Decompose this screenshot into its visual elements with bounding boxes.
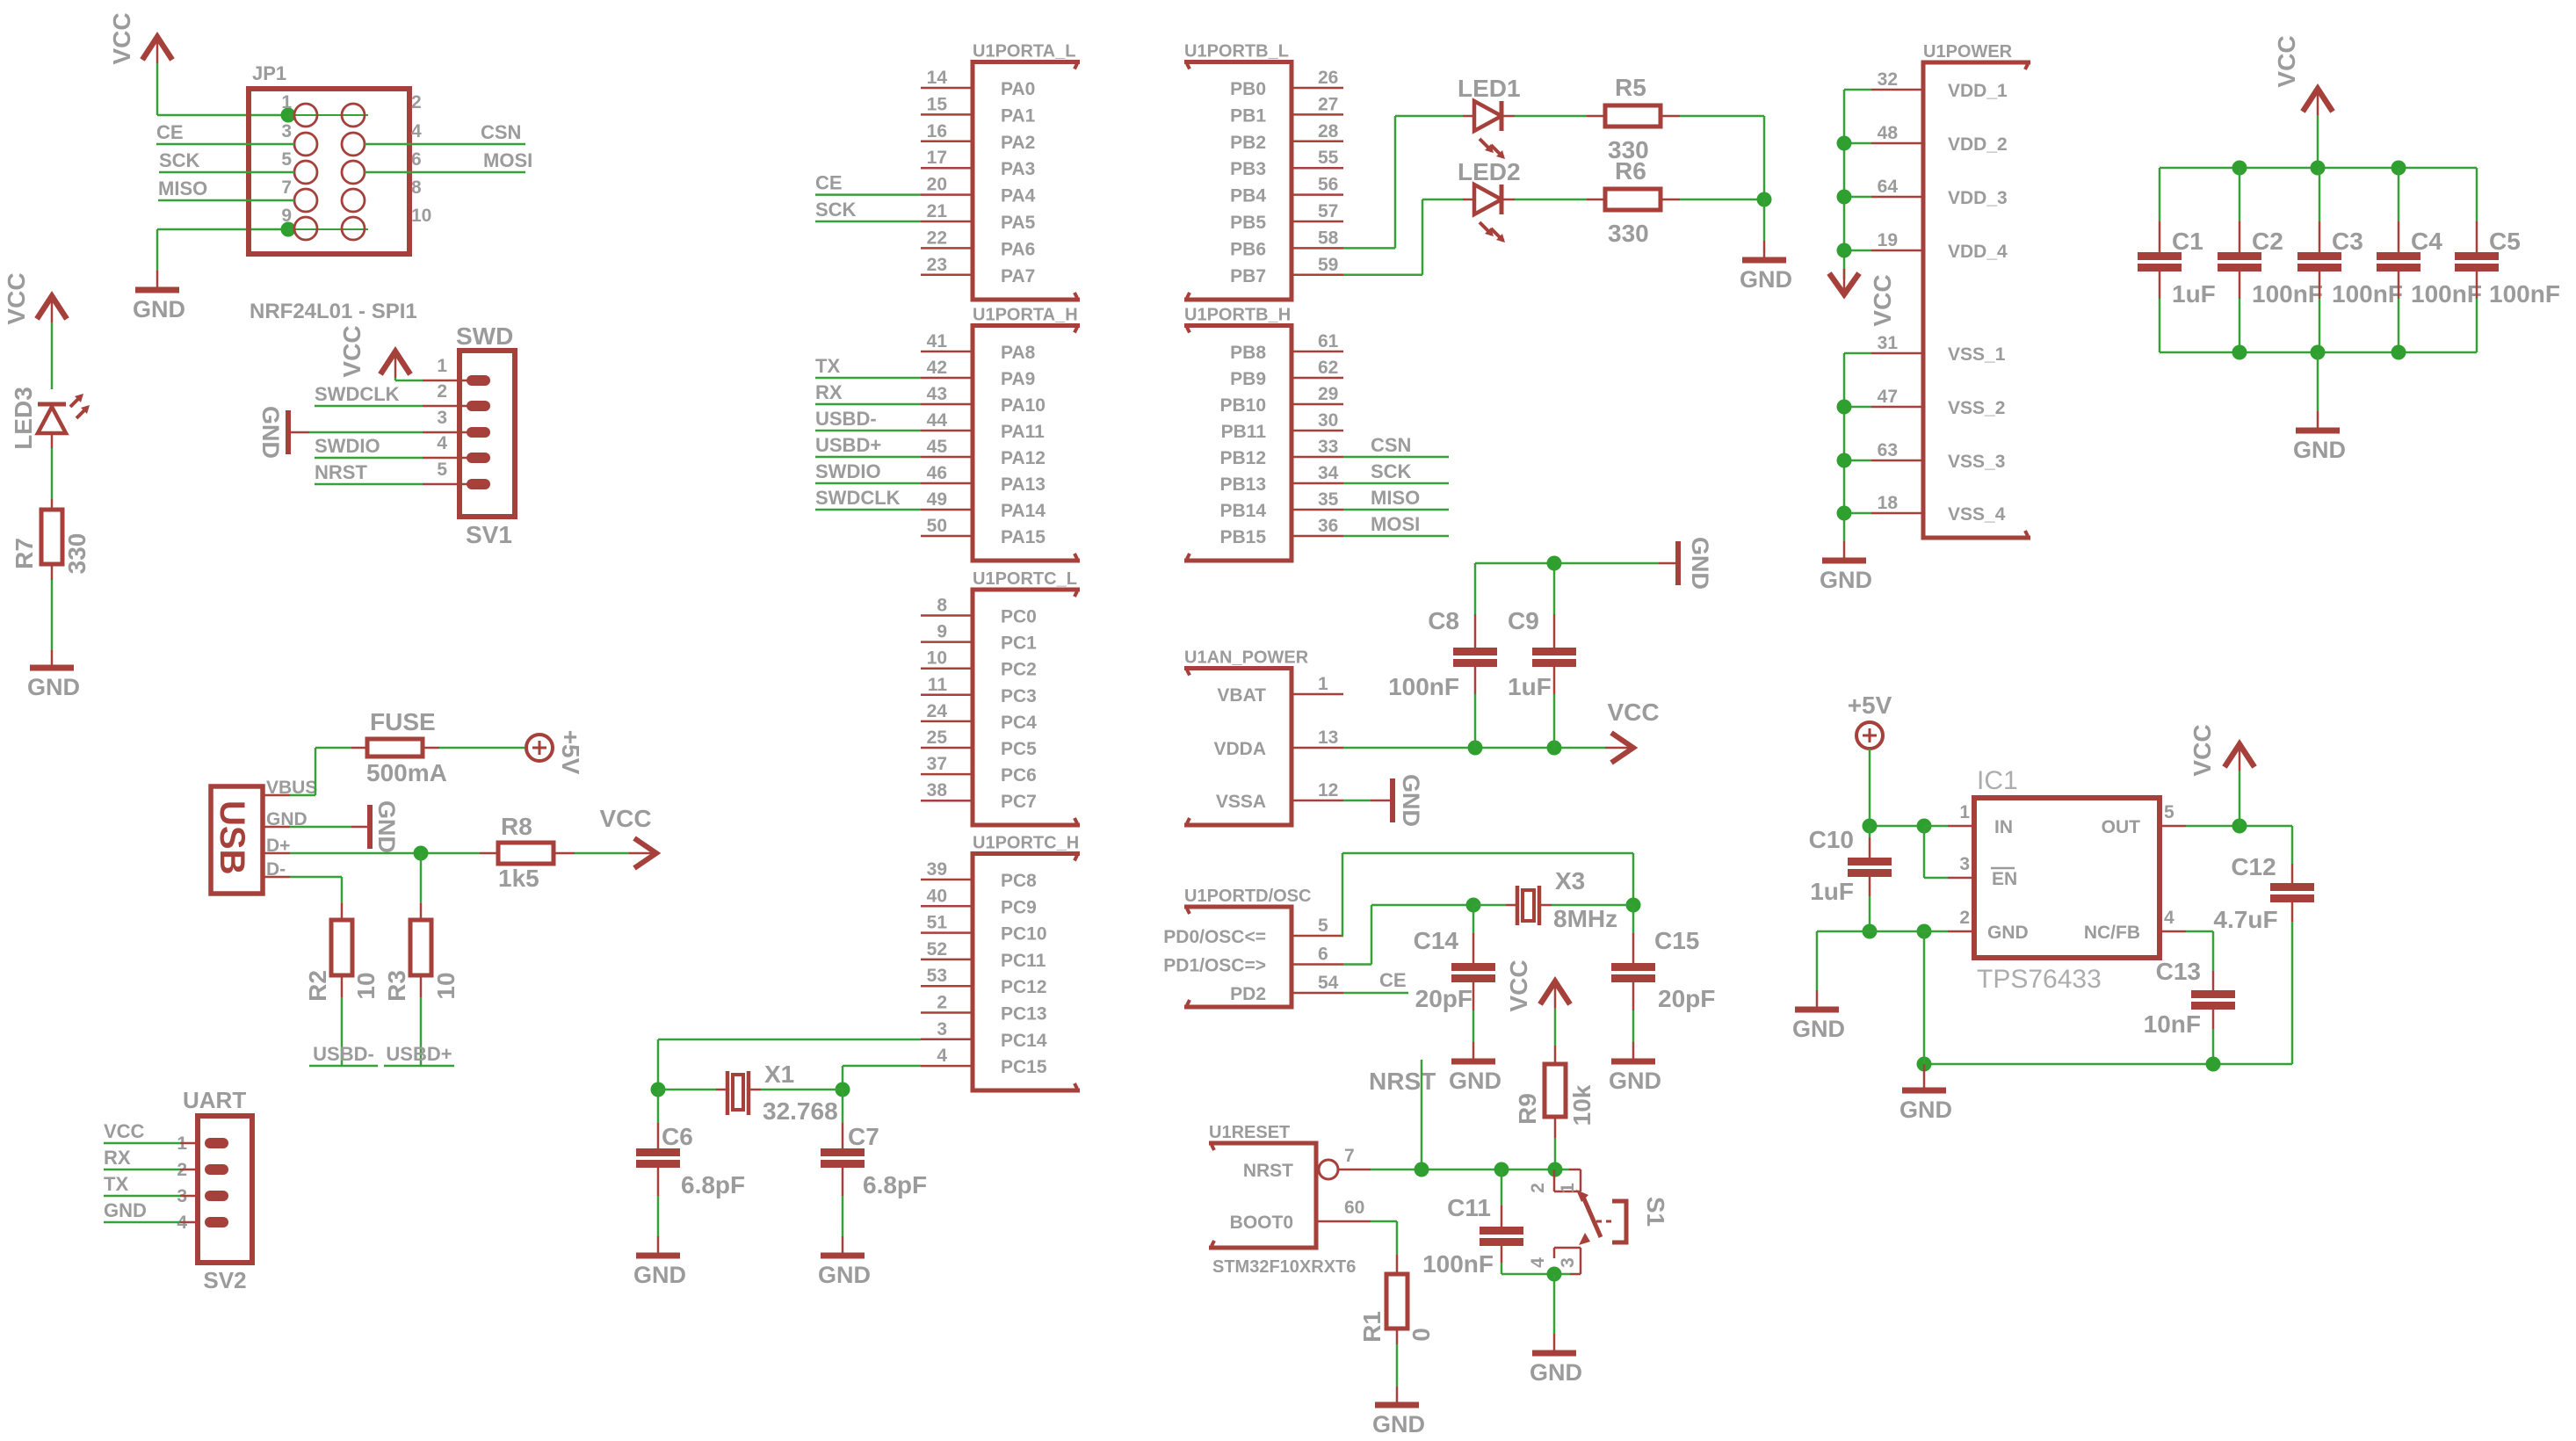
svg-text:U1PORTA_H: U1PORTA_H [973,306,1078,325]
wire+label CSN (JP1 pin4) [365,143,525,146]
svg-text:5: 5 [2164,802,2174,822]
svg-text:U1PORTB_L: U1PORTB_L [1184,42,1289,62]
svg-text:PA1: PA1 [1001,105,1036,126]
wire+label TX (U1PORTA_H) [815,377,921,380]
wire R9 to NRST row [1554,1117,1557,1138]
svg-text:4: 4 [411,121,422,141]
svg-text:3: 3 [1959,854,1970,874]
svg-text:52: 52 [927,939,947,959]
ground symbol (C6) [636,1253,680,1259]
svg-text:100nF: 100nF [2332,280,2403,308]
wire PB7 to LED2 [1343,274,1422,277]
wire X3 left stub [1473,904,1506,907]
wire C10 to GND symbol [1817,930,1870,933]
capacitor C11 [1501,1169,1503,1206]
svg-text:56: 56 [1318,175,1338,195]
svg-text:X1: X1 [764,1061,794,1088]
svg-text:45: 45 [927,437,948,457]
svg-text:15: 15 [927,94,948,114]
wire+label SCK (JP1 pin5) [159,171,294,174]
junction node C9 bottom [1547,741,1562,756]
IC U1POWER [1923,62,2030,538]
wire pins 9-10 [288,228,368,230]
svg-text:VDDA: VDDA [1213,739,1266,759]
wire GND pin to rail [1923,931,1926,1064]
IC U1RESET [1209,1143,1316,1248]
junction top C4 [2391,161,2406,176]
SV1 pads [467,375,490,386]
svg-text:27: 27 [1318,94,1338,114]
svg-text:C10: C10 [1809,826,1854,853]
wire VCC to top rail [2317,115,2319,168]
svg-text:32.768: 32.768 [763,1097,838,1125]
svg-text:C6: C6 [662,1123,693,1150]
svg-text:330: 330 [1608,220,1649,247]
svg-text:PB15: PB15 [1219,527,1266,547]
capacitor C8 [1474,563,1477,614]
svg-text:VDD_3: VDD_3 [1948,188,2008,208]
connector JP1 box [249,89,409,254]
junction node pin1 [281,108,296,123]
svg-text:U1PORTD/OSC: U1PORTD/OSC [1184,887,1311,906]
svg-text:PC13: PC13 [1001,1004,1047,1025]
junction VDD 64 [1837,190,1852,205]
wire R8 to VCC [554,852,575,855]
svg-text:IN: IN [1994,817,2013,837]
wire+label CE (PA4) [815,193,921,196]
svg-text:PC5: PC5 [1001,739,1037,759]
svg-text:U1RESET: U1RESET [1209,1123,1290,1142]
svg-text:37: 37 [927,754,947,774]
svg-text:VCC: VCC [599,805,651,832]
svg-text:C15: C15 [1654,927,1699,954]
wire pins 1-2 [288,114,368,116]
svg-text:VCC: VCC [108,12,135,64]
svg-text:12: 12 [1318,780,1338,800]
capacitor C4 [2398,168,2400,221]
LED LED3 [38,407,66,433]
svg-text:C1: C1 [2172,228,2203,255]
wire rail to GND symbol [1923,1064,1926,1090]
svg-text:100nF: 100nF [1388,673,1459,700]
svg-text:PD0/OSC<=: PD0/OSC<= [1163,927,1266,947]
svg-text:4: 4 [937,1046,947,1066]
svg-text:41: 41 [927,331,948,351]
connector SV1 box [459,351,515,517]
svg-text:3: 3 [1558,1257,1578,1268]
wire X1 left [658,1089,716,1091]
svg-text:1uF: 1uF [2172,280,2216,308]
capacitor C5 [2476,168,2478,221]
resistor R5 [1605,105,1661,127]
wire IN stub [1924,825,1948,828]
supply +5V symbol (IC1) [1856,722,1883,749]
svg-text:100nF: 100nF [2252,280,2323,308]
wire D+ junction to R3 [420,853,423,903]
USB pin stubs [263,794,290,797]
svg-text:LED1: LED1 [1458,75,1521,102]
power VCC symbol (cap bank) [2317,88,2319,115]
svg-text:GND: GND [1398,774,1424,827]
svg-text:32: 32 [1878,69,1898,90]
svg-text:28: 28 [1318,121,1339,141]
svg-text:NRF24L01 - SPI1: NRF24L01 - SPI1 [250,300,417,323]
power VCC symbol (R9) [1554,981,1557,1008]
svg-text:VDD_4: VDD_4 [1948,242,2008,262]
ground symbol (VSSA) [1390,778,1395,822]
wire GND to SV1 pin3 [291,431,309,434]
svg-text:6.8pF: 6.8pF [863,1171,927,1198]
svg-text:VSS_2: VSS_2 [1948,398,2005,418]
svg-text:9: 9 [281,206,292,226]
svg-text:C9: C9 [1508,607,1539,634]
svg-text:SWDCLK: SWDCLK [815,487,901,509]
capacitor C1 [2159,168,2161,221]
wire LED2 to R6 [1503,199,1515,201]
svg-text:8: 8 [937,596,947,616]
svg-text:29: 29 [1318,384,1338,404]
resistor R8 [498,843,554,864]
svg-text:LED2: LED2 [1458,158,1521,185]
wire S1 bottom rail [1501,1273,1570,1276]
svg-text:100nF: 100nF [2489,280,2560,308]
svg-text:10k: 10k [1568,1084,1596,1126]
wire VCC to JP1 pin 1 [156,63,159,115]
svg-text:BOOT0: BOOT0 [1230,1213,1293,1233]
svg-text:PC11: PC11 [1001,951,1046,971]
svg-text:PC3: PC3 [1001,686,1037,706]
capacitor C10 [1869,826,1871,837]
svg-text:PD2: PD2 [1230,984,1266,1004]
IC U1PORTA_L [973,62,1080,301]
junction VDD 48 [1837,136,1852,151]
svg-text:46: 46 [927,463,947,483]
connector USB box [211,786,263,894]
svg-text:PA3: PA3 [1001,159,1035,179]
svg-text:SWDIO: SWDIO [315,435,380,457]
wire NC/FB to C13 [2160,930,2186,933]
svg-text:PC6: PC6 [1001,765,1037,786]
svg-text:PB6: PB6 [1230,239,1266,259]
resistor R9 [1545,1064,1566,1117]
svg-text:1: 1 [437,356,447,376]
svg-text:C13: C13 [2156,958,2201,985]
svg-text:9: 9 [937,622,947,642]
svg-text:R3: R3 [383,970,410,1002]
svg-text:C8: C8 [1428,607,1459,634]
junction node C10 top [1863,819,1878,834]
svg-text:U1POWER: U1POWER [1923,42,2013,62]
svg-text:GND: GND [818,1262,871,1288]
svg-text:CE: CE [815,172,843,194]
power VCC symbol (OUT) [2239,771,2241,826]
ground symbol (U1POWER) [1822,558,1866,564]
svg-text:19: 19 [1878,230,1898,250]
wire VBUS to fuse [290,794,315,797]
resistor R3 [410,920,431,975]
svg-text:TX: TX [815,355,840,377]
capacitor C9 [1553,563,1556,614]
svg-text:33: 33 [1318,437,1338,457]
svg-text:VSS_3: VSS_3 [1948,452,2005,472]
wire VDDA to VCC [1343,747,1605,749]
svg-text:X3: X3 [1555,867,1585,894]
svg-text:C14: C14 [1414,927,1459,954]
junction node X1 left [651,1083,666,1097]
svg-text:NRST: NRST [315,461,367,483]
wire LED1 to R5 [1503,115,1515,118]
svg-text:VCC: VCC [1505,959,1532,1011]
IC U1PORTC_L [973,590,1080,825]
U1RESET BOOT0 pin [1316,1220,1371,1223]
svg-text:SWDCLK: SWDCLK [315,383,400,405]
svg-text:PA12: PA12 [1001,448,1046,468]
svg-text:1: 1 [1318,674,1328,694]
junction node pin9 [281,222,296,237]
fuse FUSE [367,739,423,757]
capacitor C12 [2291,826,2294,864]
svg-text:USBD-: USBD- [313,1043,374,1065]
IC IC1 box [1974,798,2160,958]
svg-text:USBD+: USBD+ [386,1043,452,1065]
junction node IN/EN [1917,819,1932,834]
junction node X1 right [836,1083,850,1097]
wire R1 to GND [1396,1329,1399,1344]
svg-text:VDD_1: VDD_1 [1948,81,2008,101]
svg-text:+5V: +5V [1848,692,1892,719]
svg-text:47: 47 [1878,387,1898,407]
power VCC symbol (SWD) [394,351,397,378]
LED LED2 [1474,185,1501,214]
IC U1PORTC_H [973,854,1080,1091]
svg-text:PC15: PC15 [1001,1057,1047,1077]
wire+label MISO (U1PORTB_H) [1343,509,1449,511]
svg-text:20pF: 20pF [1658,985,1715,1012]
svg-text:MISO: MISO [1371,487,1420,509]
svg-text:VCC: VCC [338,325,365,377]
svg-text:NRST: NRST [1243,1161,1293,1181]
svg-text:3: 3 [437,408,447,428]
svg-text:PC0: PC0 [1001,607,1037,627]
svg-text:PB0: PB0 [1230,79,1266,99]
wire VCC to LED3 [51,322,54,389]
capacitor C15 [1632,905,1635,933]
junction VSS 18 [1837,506,1852,521]
svg-text:5: 5 [437,460,447,480]
svg-text:VCC: VCC [104,1120,145,1142]
svg-text:CE: CE [1379,969,1407,991]
svg-text:CSN: CSN [481,121,521,143]
wire R6 to GND [1661,199,1680,201]
svg-text:58: 58 [1318,228,1339,248]
junction node C13 bottom [2206,1057,2221,1072]
svg-text:500mA: 500mA [366,759,447,786]
wire +5V to IN [1869,749,1871,826]
svg-text:PA8: PA8 [1001,343,1036,363]
wire+label MISO (JP1 pin7) [158,199,294,202]
junction top C3 [2311,161,2326,176]
U1RESET NRST pin (inverted) [1319,1160,1338,1179]
svg-text:2: 2 [937,993,947,1013]
svg-text:USBD+: USBD+ [815,434,881,456]
power VCC arrow (R8) [629,852,655,855]
svg-text:R7: R7 [11,538,38,569]
svg-text:GND: GND [104,1199,147,1221]
svg-text:CE: CE [156,121,184,143]
svg-text:2: 2 [437,381,447,402]
svg-text:R5: R5 [1615,74,1646,101]
svg-text:PA15: PA15 [1001,527,1046,547]
svg-text:USBD-: USBD- [815,408,877,430]
svg-text:GND: GND [373,800,400,853]
ground symbol (JP1) [156,271,159,290]
wire cap bank top rail [2160,167,2477,170]
ground symbol (C7) [821,1253,865,1259]
wire R3 to USBD+ label [420,975,423,997]
svg-text:23: 23 [927,255,947,275]
svg-text:10: 10 [432,972,459,999]
wire+label SWDIO (SV1 pin4) [315,457,423,460]
wire PB6 to LED1 [1343,247,1395,250]
svg-text:JP1: JP1 [252,62,286,84]
wire+label CE (PD2) [1343,992,1408,995]
svg-text:C3: C3 [2332,228,2363,255]
IC U1PORTB_L [1184,62,1292,301]
net label USBD+ [384,1065,454,1068]
ground symbol (C15) [1611,1059,1655,1065]
svg-text:17: 17 [927,148,947,168]
svg-text:1k5: 1k5 [498,865,539,892]
wire R7 to GND [51,564,54,580]
svg-text:LED3: LED3 [10,387,37,450]
svg-text:6: 6 [1318,945,1328,965]
svg-text:20: 20 [927,175,947,195]
capacitor C2 [2239,168,2241,221]
svg-text:PA2: PA2 [1001,133,1035,153]
svg-text:21: 21 [927,201,948,221]
IC U1PORTD/OSC [1184,907,1292,1007]
svg-text:C4: C4 [2411,228,2442,255]
svg-text:10: 10 [927,648,947,669]
svg-text:2: 2 [411,92,422,112]
crystal X3 [1516,886,1520,925]
svg-text:TPS76433: TPS76433 [1977,965,2102,994]
wire+label VCC (SV2 pin1) [104,1142,180,1145]
wire X1 right [750,1089,761,1091]
svg-text:7: 7 [281,177,292,198]
svg-text:VCC: VCC [1607,699,1659,726]
svg-text:42: 42 [927,358,947,378]
svg-text:VDD_2: VDD_2 [1948,134,2008,155]
svg-text:5: 5 [281,149,292,170]
svg-text:PA4: PA4 [1001,186,1036,206]
power VCC arrow (VDDA) [1605,747,1632,749]
svg-text:GND: GND [133,296,185,322]
junction node S1/GND [1547,1267,1562,1282]
svg-text:18: 18 [1878,493,1899,513]
capacitor C3 [2319,168,2321,221]
wire+label TX (SV2 pin3) [104,1195,180,1198]
junction node R6/GND [1757,192,1772,207]
svg-text:24: 24 [927,701,948,721]
SV2 pads [205,1138,228,1148]
junction node NRST/label [1415,1162,1429,1177]
svg-text:R6: R6 [1615,157,1646,185]
IC U1PORTA_H [973,326,1080,561]
wire BOOT0 to R1 [1371,1220,1397,1223]
junction VDD 19 [1837,243,1852,258]
svg-text:UART: UART [183,1087,246,1113]
svg-text:NRST: NRST [1369,1068,1436,1095]
junction bottom C2 [2232,345,2247,360]
svg-text:20pF: 20pF [1415,985,1473,1012]
svg-text:PB12: PB12 [1219,448,1266,468]
ground symbol (C8/C9) [1659,562,1676,565]
svg-text:MOSI: MOSI [1371,513,1420,535]
connector SV2 box [198,1116,252,1263]
svg-text:PA0: PA0 [1001,79,1035,99]
power VCC symbol (LED3) [51,295,54,322]
svg-text:SCK: SCK [815,199,857,221]
svg-text:4: 4 [2164,908,2174,928]
svg-text:PC9: PC9 [1001,897,1037,917]
junction node D+ [414,846,429,861]
svg-text:PA6: PA6 [1001,239,1035,259]
junction node X3 right [1626,898,1641,913]
svg-text:U1PORTA_L: U1PORTA_L [973,42,1075,62]
ground symbol (R7) [30,665,74,671]
svg-text:VSS_1: VSS_1 [1948,344,2006,365]
svg-text:PB1: PB1 [1230,105,1266,126]
resistor R1 [1386,1274,1407,1329]
svg-text:PC7: PC7 [1001,792,1037,812]
svg-text:25: 25 [927,728,948,748]
svg-text:10: 10 [352,972,380,999]
svg-text:50: 50 [927,516,947,536]
wire PC14 net [658,1039,921,1041]
LED LED1 [1474,101,1501,131]
svg-text:VBAT: VBAT [1217,685,1266,706]
svg-text:35: 35 [1318,489,1339,510]
svg-text:51: 51 [927,913,948,933]
wire X3 right stub [1541,904,1552,907]
svg-text:C7: C7 [848,1123,879,1150]
svg-text:36: 36 [1318,516,1338,536]
net label USBD- [309,1065,378,1068]
svg-text:GND: GND [1899,1097,1952,1123]
svg-text:CSN: CSN [1371,434,1411,456]
svg-text:31: 31 [1878,333,1899,353]
wire VDD bus [1844,89,1871,91]
wire VSS bus [1844,352,1871,355]
wire+label NRST (SV1 pin5) [315,483,423,486]
svg-text:38: 38 [927,780,948,800]
svg-text:34: 34 [1318,463,1339,483]
wire+label SCK (PA5) [815,221,921,223]
svg-text:62: 62 [1318,358,1338,378]
svg-text:GND: GND [1372,1411,1425,1437]
svg-text:OUT: OUT [2102,817,2141,837]
supply +5V symbol (fuse) [526,735,553,761]
ground symbol (IC1) [1902,1088,1946,1094]
wire+label SWDCLK (SV1 pin2) [315,405,423,408]
capacitor C6 [657,1090,660,1123]
svg-text:PB8: PB8 [1230,343,1266,363]
wire bottom rail (IC1) [1924,1063,2292,1066]
junction VSS 63 [1837,453,1852,468]
svg-text:PB7: PB7 [1230,266,1266,286]
svg-text:6: 6 [411,149,422,170]
